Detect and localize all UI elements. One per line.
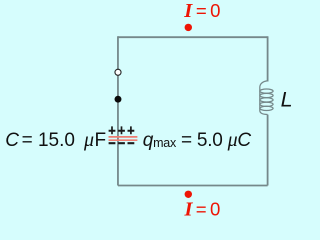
- capacitor C bottom plate: [109, 139, 138, 141]
- node junction (black dot): [115, 96, 122, 103]
- svg-text:I= 0: I= 0: [184, 199, 221, 221]
- wire top: [118, 36, 268, 38]
- svg-text:L: L: [281, 88, 293, 112]
- inductor L coil: [260, 81, 273, 115]
- wire left: [117, 36, 119, 185]
- wire right (below inductor): [267, 115, 269, 186]
- capacitor C top plate: [109, 136, 138, 138]
- switch open terminal (open circle): [115, 69, 121, 75]
- node current marker bottom (red dot): [185, 191, 192, 198]
- svg-text:I= 0: I= 0: [183, 0, 220, 22]
- node current marker top (red dot): [185, 24, 192, 31]
- svg-text:qmax = 5.0 μC: qmax = 5.0 μC: [143, 129, 252, 151]
- wire right (above inductor): [267, 36, 269, 81]
- wire bottom: [118, 185, 268, 187]
- plus charges on top plate: [109, 126, 135, 134]
- svg-text:C= 15.0μF: C= 15.0μF: [5, 129, 106, 151]
- minus charges on bottom plate: [109, 142, 135, 144]
